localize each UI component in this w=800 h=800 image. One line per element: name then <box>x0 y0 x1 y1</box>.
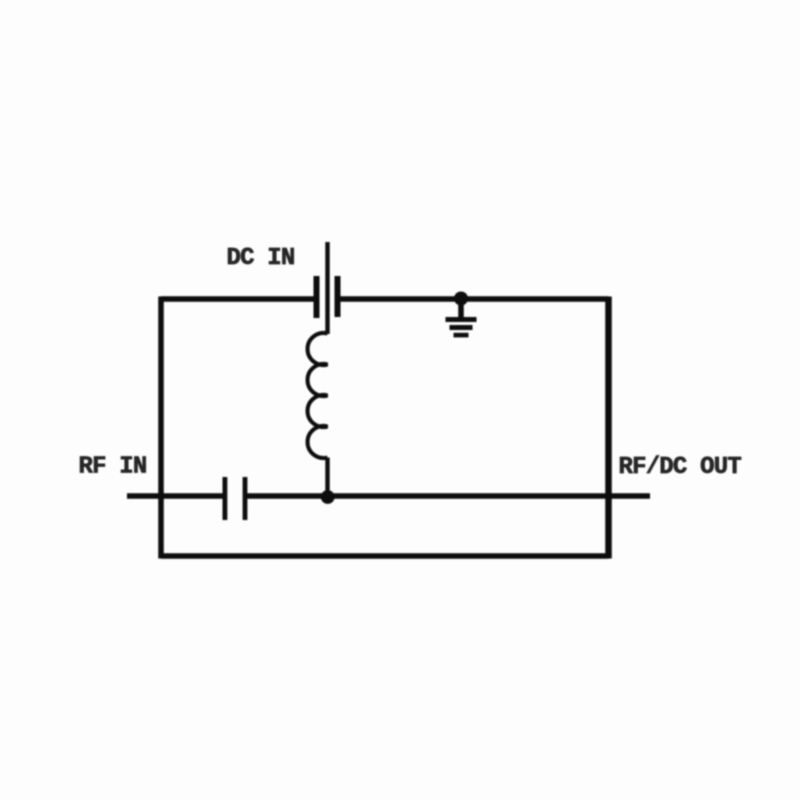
svg-text:RF/DC OUT: RF/DC OUT <box>619 454 742 481</box>
enclosure box top edge (right segment) <box>341 296 609 302</box>
capacitor C1 feedthrough right plate <box>335 276 341 317</box>
svg-text:DC IN: DC IN <box>227 245 295 272</box>
svg-text:RF IN: RF IN <box>79 454 147 481</box>
enclosure box top edge (left segment) <box>161 296 314 302</box>
capacitor C1 feedthrough left plate <box>314 276 320 318</box>
enclosure box right edge <box>605 297 612 559</box>
enclosure box left edge <box>158 297 164 559</box>
capacitor C2 series right plate <box>243 477 248 520</box>
wire: RF line from capacitor to RF/DC OUT <box>247 493 650 499</box>
capacitor C2 series left plate <box>223 477 228 520</box>
wire: DC IN feed line through feedthrough capacitor <box>325 242 329 334</box>
ground <box>446 292 477 338</box>
wire: RF IN stub to series capacitor <box>127 493 223 499</box>
enclosure box bottom edge <box>161 553 609 559</box>
wire: inductor bottom lead <box>325 458 329 497</box>
node junction dot at inductor / RF line <box>321 490 335 504</box>
inductor L1 <box>308 333 328 458</box>
